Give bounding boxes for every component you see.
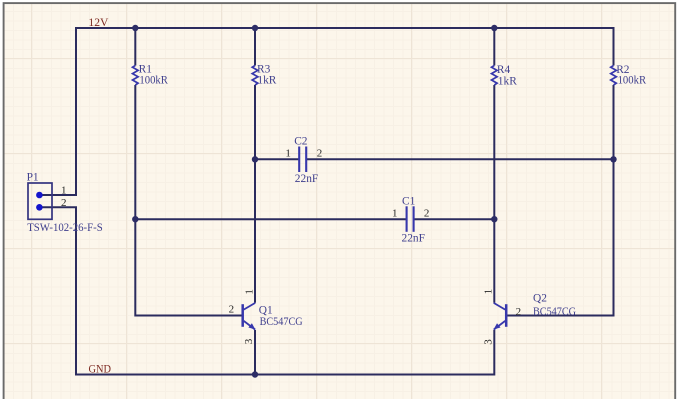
svg-text:1: 1 [243,289,255,295]
svg-text:R4: R4 [497,64,511,76]
wire: C2 left segment [255,158,299,160]
svg-text:100kR: 100kR [139,74,168,86]
capacitor C1 labels [402,195,425,244]
svg-text:3: 3 [482,339,494,345]
svg-text:3: 3 [243,338,255,344]
wire: C2 right segment [306,158,613,160]
svg-text:22nF: 22nF [402,233,425,245]
resistor R2 body [611,66,617,86]
wire: R4 lower segment / Q2 collector [493,85,495,303]
svg-text:1: 1 [483,289,495,295]
junction node C2 wire / R2 line [610,156,616,162]
transistor Q1 emitter arrow [248,323,255,329]
resistor R4 body [492,66,498,86]
svg-text:100kR: 100kR [618,74,647,86]
svg-text:22nF: 22nF [295,173,318,185]
wire: R3 top stub [254,28,256,66]
svg-text:1: 1 [61,185,67,197]
junction node C1 wire / R1 line [132,216,138,222]
svg-text:1: 1 [392,207,398,219]
svg-text:TSW-102-26-F-S: TSW-102-26-F-S [27,222,103,234]
svg-text:BC547CG: BC547CG [533,306,576,318]
svg-text:C1: C1 [402,195,416,207]
svg-text:12V: 12V [88,16,109,29]
junction on top rail at R3 [252,25,258,31]
svg-text:1kR: 1kR [498,75,517,87]
svg-text:P1: P1 [27,171,39,183]
svg-text:2: 2 [317,148,323,160]
resistor R3 body [252,66,258,86]
transistor Q1 body [243,303,256,330]
wire: R2 lower segment + Q2 base wire [507,85,613,316]
svg-text:C2: C2 [294,135,308,147]
svg-text:Q2: Q2 [533,293,547,305]
resistor R2 labels [616,64,646,86]
capacitor C2 pin numbers [285,148,322,160]
transistor Q2 body [494,303,507,330]
capacitor C2 plates [299,147,306,173]
wire: P1 pin2 stub + left rail down + GND bottom rail + Q2 emitter riser [39,207,494,374]
connector P1 pad 1 [36,192,43,199]
resistor R1 body [133,66,139,86]
wire: R4 top stub [493,28,495,66]
junction node C2 wire / R3 line [252,156,258,162]
svg-text:1kR: 1kR [257,74,276,86]
connector P1 box [28,183,52,219]
capacitor C1 plates [407,206,414,232]
resistor R4 labels [497,64,517,87]
junction Q1 emitter / ground rail [252,371,258,377]
connector P1 pad 2 [36,204,43,211]
svg-text:1: 1 [285,148,291,160]
svg-text:2: 2 [229,304,235,316]
svg-text:GND: GND [89,363,112,376]
svg-text:2: 2 [61,197,67,209]
capacitor C1 pin numbers [392,207,429,219]
svg-text:2: 2 [516,306,522,318]
transistor Q1 labels [259,304,303,327]
wire: C1 left segment [135,218,406,220]
transistor Q2 emitter arrow [494,323,501,329]
svg-text:2: 2 [424,207,430,219]
svg-text:BC547CG: BC547CG [260,316,303,328]
resistor R1 labels [139,64,169,87]
capacitor C2 labels [294,135,318,185]
junction on top rail at R4 [491,25,497,31]
svg-text:Q1: Q1 [259,304,273,316]
wire: C1 right segment [414,218,495,220]
wire: R1 lower segment + Q1 base wire [135,85,241,316]
wire: P1 pin1 stub + left rail up + 12V top rail + R2 top stub [39,28,613,195]
transistor Q2 labels [533,293,576,318]
wire: Q1 emitter to ground rail [254,330,256,375]
wire: R1 top stub [134,28,136,66]
resistor R3 labels [257,64,277,87]
wire: R3 lower segment / Q1 collector [254,85,256,303]
junction on top rail at R1 [132,25,138,31]
junction node C1 wire / R4 line [491,216,497,222]
